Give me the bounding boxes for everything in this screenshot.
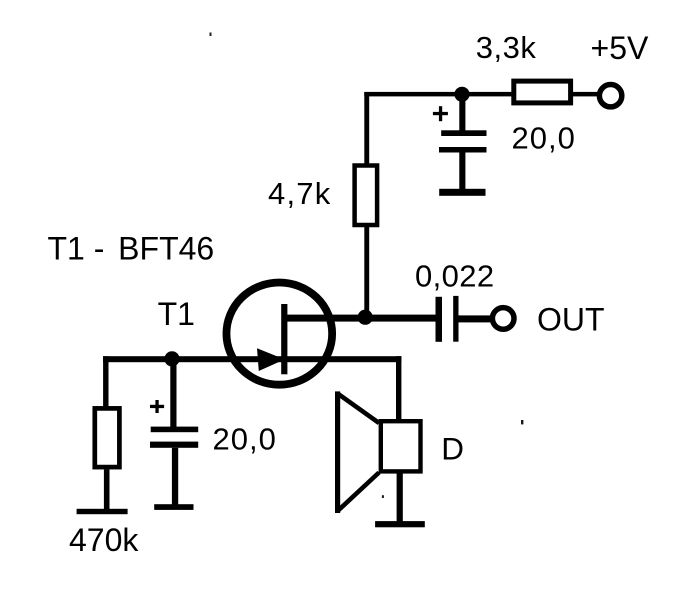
svg-text:4,7k: 4,7k: [268, 176, 331, 211]
wire 470k to ground: [104, 470, 110, 510]
resistor R2 4,7k: [355, 166, 378, 226]
svg-text:T1 - BFT46: T1 - BFT46: [48, 231, 215, 267]
ground (C1): [439, 189, 485, 196]
wire top rail from corner to +5V terminal: [364, 92, 598, 97]
svg-text:470k: 470k: [69, 522, 139, 558]
wire source corner down to speaker: [396, 356, 401, 420]
transistor T1 channel bar: [281, 304, 287, 374]
node B (drain node): [358, 310, 373, 325]
ground (speaker): [375, 521, 425, 527]
wire C2 to OUT terminal: [459, 315, 491, 322]
capacitor C1 20,0 plate 1: [441, 130, 486, 136]
node A (supply node): [454, 87, 469, 102]
capacitor C2 0,022 plate 2: [453, 296, 458, 342]
svg-text:T1: T1: [158, 296, 195, 332]
stray speck: [210, 33, 212, 37]
transistor T1 gate arrow: [257, 348, 285, 371]
resistor R1 3,3k: [514, 81, 571, 103]
capacitor C3 20,0 plate 2: [150, 442, 198, 448]
svg-text:20,0: 20,0: [213, 421, 277, 456]
wire vertical drop from top rail to 4,7k and down to drain node: [364, 92, 369, 317]
svg-text:+5V: +5V: [591, 30, 649, 66]
speaker D horn back line: [335, 391, 340, 513]
svg-text:3,3k: 3,3k: [476, 30, 537, 65]
svg-text:OUT: OUT: [537, 302, 605, 338]
stray speck: [521, 420, 523, 424]
wire from node A down to C1: [459, 94, 465, 131]
polarity + (C3): [150, 405, 164, 408]
stray speck: [382, 495, 384, 498]
terminal +5V: [599, 85, 621, 107]
transistor T1 body circle: [226, 283, 332, 385]
svg-text:0,022: 0,022: [415, 258, 495, 293]
svg-text:20,0: 20,0: [512, 120, 576, 155]
speaker D horn top diagonal: [338, 394, 379, 424]
polarity + (C1): [433, 112, 448, 115]
capacitor C3 20,0 plate 1: [151, 427, 199, 433]
wire node C down to C3: [170, 358, 176, 427]
capacitor C1 20,0 plate 2: [439, 147, 487, 153]
speaker D horn bottom diagonal: [338, 473, 379, 512]
ground (C3): [154, 504, 193, 510]
wire gate/source horizontal run: [103, 356, 401, 362]
wire speaker to ground: [397, 472, 403, 522]
wire C3 to ground: [172, 448, 178, 505]
wire corner down to 470k: [103, 356, 108, 407]
ground (R3): [77, 509, 128, 514]
capacitor C2 0,022 plate 1: [436, 297, 443, 342]
wire drain: bar to node B to C2: [283, 315, 436, 322]
wire from C1 to ground: [459, 153, 465, 190]
svg-text:D: D: [441, 430, 464, 466]
speaker D driver square: [381, 421, 421, 471]
resistor R3 470k: [95, 408, 120, 467]
terminal OUT: [492, 308, 514, 330]
node C (gate node): [164, 351, 179, 366]
